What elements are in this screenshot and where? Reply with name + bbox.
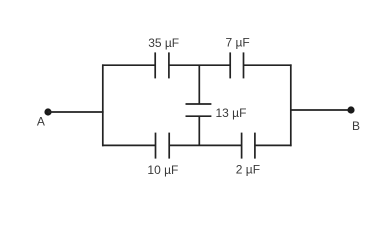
- wire: middle branch upper vertical: [198, 65, 200, 104]
- capacitor 2 uF right plate: [254, 133, 256, 159]
- svg-text:A: A: [37, 114, 45, 128]
- wire: bottom rail middle segment: [169, 144, 241, 146]
- capacitor 7 uF right plate: [243, 52, 245, 78]
- svg-text:B: B: [352, 119, 360, 133]
- capacitor 10 uF left plate: [155, 133, 157, 159]
- svg-text:2 µF: 2 µF: [236, 163, 260, 177]
- wire: top rail left segment: [102, 64, 155, 66]
- wire: top rail middle segment: [169, 64, 230, 66]
- wire: left vertical rail: [102, 64, 104, 146]
- capacitor 7 uF left plate: [229, 52, 231, 78]
- svg-text:10 µF: 10 µF: [147, 163, 178, 177]
- terminal B dot: [347, 106, 354, 113]
- terminal A dot: [44, 108, 51, 115]
- capacitor 10 uF right plate: [168, 133, 170, 159]
- capacitor 13 uF bottom plate: [186, 115, 212, 117]
- capacitor 35 uF left plate: [154, 52, 156, 78]
- svg-text:35 µF: 35 µF: [148, 36, 179, 50]
- wire: right vertical rail: [290, 64, 292, 146]
- svg-text:7 µF: 7 µF: [226, 35, 250, 49]
- wire: A lead to left rail: [48, 111, 104, 113]
- capacitor 2 uF left plate: [241, 133, 243, 159]
- svg-text:13 µF: 13 µF: [216, 106, 247, 120]
- wire: B lead from right rail: [290, 109, 351, 111]
- capacitor 35 uF right plate: [168, 52, 170, 78]
- wire: top rail right segment: [244, 64, 292, 66]
- wire: middle branch lower vertical: [198, 116, 200, 145]
- wire: bottom rail right segment: [255, 144, 292, 146]
- wire: bottom rail left segment: [102, 144, 156, 146]
- capacitor 13 uF top plate: [186, 103, 212, 105]
